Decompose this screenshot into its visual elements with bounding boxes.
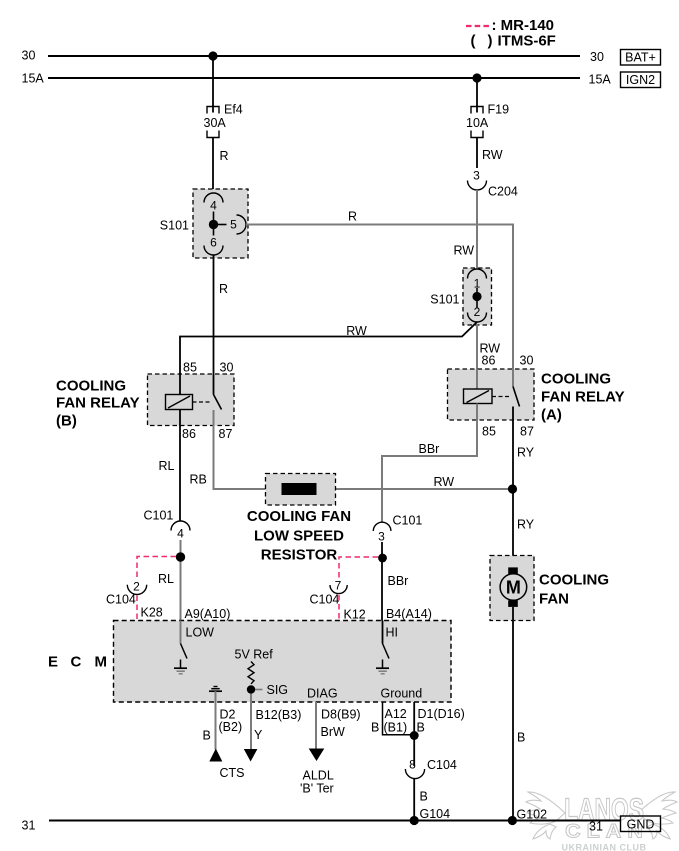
svg-text:HI: HI <box>386 626 399 640</box>
svg-text:K12: K12 <box>344 608 366 622</box>
svg-text:10A: 10A <box>466 116 489 130</box>
node K12 <box>344 608 366 622</box>
svg-text:M: M <box>506 578 521 598</box>
cooling fan motor M1 <box>500 567 527 606</box>
svg-text:C: C <box>71 654 82 671</box>
wire BBr C101 pin3 to ECM HI <box>382 542 408 621</box>
relay A pin 87 label <box>520 425 534 439</box>
svg-text:UKRAINIAN CLUB: UKRAINIAN CLUB <box>562 843 647 851</box>
connector C104 pin 8 <box>405 758 457 779</box>
svg-text:COOLING: COOLING <box>539 572 609 589</box>
relay B switch <box>214 374 222 410</box>
node label 30 left <box>22 49 36 63</box>
splice S101 (right block) <box>463 268 492 325</box>
S101 pin 4 <box>204 193 223 213</box>
svg-text:C104: C104 <box>427 758 457 772</box>
wire SIG to B12 pin <box>250 694 252 703</box>
ECM LOW driver switch <box>181 621 188 659</box>
svg-text:8: 8 <box>409 758 416 772</box>
svg-text:R: R <box>220 149 229 163</box>
svg-text:ALDL: ALDL <box>303 769 334 783</box>
relay B pin 30 label <box>220 361 234 375</box>
bus wire 15A <box>48 77 580 79</box>
svg-text:C101: C101 <box>144 509 174 523</box>
node label 30 right <box>590 50 604 64</box>
svg-text:6: 6 <box>210 236 217 250</box>
legend MR-140 dashed sample <box>466 25 489 27</box>
wire fuse F19 to connector C204, label RW <box>477 138 503 169</box>
wire RW S101 pin2 to relay A pin86 <box>477 324 500 369</box>
svg-text:15A: 15A <box>22 72 45 86</box>
motor: cooling fan box <box>490 556 534 621</box>
CTS arrow <box>209 749 244 781</box>
svg-text:ITMS-6F: ITMS-6F <box>498 33 556 50</box>
svg-text:GND: GND <box>627 818 655 832</box>
resistor name <box>247 508 351 564</box>
svg-text:RESISTOR: RESISTOR <box>261 547 338 564</box>
ground G104 <box>410 807 451 825</box>
svg-text:RL: RL <box>158 572 174 586</box>
svg-text:R: R <box>219 282 228 296</box>
ECM SIG node <box>247 683 288 697</box>
svg-text:30: 30 <box>22 49 36 63</box>
svg-text:(B1): (B1) <box>384 721 408 735</box>
node label 15A right <box>589 73 612 87</box>
svg-text:S101: S101 <box>160 219 189 233</box>
svg-text:85: 85 <box>482 425 496 439</box>
svg-text:RW: RW <box>346 324 367 338</box>
connector C104 pin 7 <box>310 579 348 607</box>
pin D2 (B2) wire to CTS <box>203 702 243 750</box>
ECM name <box>48 654 107 671</box>
wire C104 pin8 to G104, label B <box>414 779 428 821</box>
relay A name <box>541 371 625 424</box>
ground G102 <box>508 808 547 826</box>
svg-text:B4(A14): B4(A14) <box>386 607 432 621</box>
wire R from S101 pin6 to relay B pin30 <box>214 255 229 374</box>
label RW above S101 right <box>454 244 475 258</box>
ECM HI input label <box>386 626 399 640</box>
svg-text:2: 2 <box>474 305 481 319</box>
terminal BAT+ <box>621 50 661 66</box>
wire bus30 to fuse Ef4 <box>212 56 214 113</box>
pin D1(D16) wire, label B <box>414 702 465 736</box>
svg-text:RW: RW <box>482 148 503 162</box>
junction A12/D1 <box>410 731 419 740</box>
svg-text:S101: S101 <box>430 293 459 307</box>
connector C204 pin 3 <box>468 169 518 199</box>
svg-text:B: B <box>417 721 425 735</box>
svg-text:CTS: CTS <box>220 766 245 780</box>
svg-text:87: 87 <box>219 427 233 441</box>
terminal IGN2 <box>621 72 661 88</box>
ECM LOW ground <box>174 660 187 674</box>
connector C101 pin 4 <box>144 509 191 541</box>
relay: cooling fan relay (B) box <box>148 374 235 426</box>
S101 pin 5 <box>230 215 246 234</box>
wire junction to C104 pin8 <box>413 736 415 767</box>
svg-text:FAN RELAY: FAN RELAY <box>56 395 140 412</box>
svg-text:RL: RL <box>159 459 175 473</box>
svg-text:B12(B3): B12(B3) <box>256 708 302 722</box>
svg-text:(B): (B) <box>56 413 77 430</box>
relay A switch <box>513 369 520 407</box>
svg-text:: MR-140: : MR-140 <box>492 17 555 34</box>
wire B cooling fan to G102 <box>513 607 525 821</box>
label RW resistor to junction <box>434 475 455 489</box>
splice S101 (left block) <box>193 189 248 258</box>
svg-text:LOW: LOW <box>186 626 215 640</box>
svg-text:COOLING FAN: COOLING FAN <box>247 508 351 525</box>
junction on bus 15A <box>472 73 481 82</box>
svg-text:87: 87 <box>520 425 534 439</box>
svg-text:C104: C104 <box>106 593 136 607</box>
relay B coil <box>166 374 193 426</box>
wire bus15A to fuse F19 <box>476 78 478 113</box>
svg-text:30A: 30A <box>204 116 227 130</box>
svg-text:D8(B9): D8(B9) <box>321 708 361 722</box>
relay A coil-switch dashed link <box>492 396 511 398</box>
svg-text:B: B <box>203 729 211 743</box>
svg-text:31: 31 <box>589 820 603 834</box>
svg-text:BBr: BBr <box>388 574 409 588</box>
relay A coil <box>464 369 493 420</box>
ECM LOW input label <box>186 626 215 640</box>
svg-text:K28: K28 <box>141 606 163 620</box>
svg-text:D1(D16): D1(D16) <box>418 707 465 721</box>
S101 splice dot and stubs <box>209 212 227 236</box>
svg-text:Y: Y <box>254 728 263 742</box>
svg-text:B: B <box>371 721 379 735</box>
wire MR-140 option to C104 pin7 (magenta dashed) <box>339 557 378 621</box>
svg-text:B: B <box>517 731 525 745</box>
svg-text:A9(A10): A9(A10) <box>185 607 231 621</box>
S101 right pin 2 <box>468 305 487 322</box>
svg-text:COOLING: COOLING <box>56 378 126 395</box>
cooling fan name <box>539 572 609 608</box>
svg-text:4: 4 <box>210 199 217 213</box>
S101 right splice dot <box>472 288 481 308</box>
svg-text:'B' Ter: 'B' Ter <box>300 782 334 796</box>
wire RL relay B pin86 to C101 pin4 <box>159 426 181 522</box>
wire RW S101 pin2 to relay B pin85 <box>180 322 477 374</box>
svg-text:3: 3 <box>473 169 480 183</box>
svg-text:RY: RY <box>517 518 535 532</box>
node label 31 left <box>22 819 36 833</box>
ECM chassis ground for D2 <box>209 687 222 703</box>
ECM DIAG label <box>307 687 338 701</box>
ECM U1 box <box>114 621 452 703</box>
relay B pin 86 label <box>182 427 196 441</box>
wire RB relay B pin87 to resistor <box>190 410 513 489</box>
svg-text:RW: RW <box>434 475 455 489</box>
svg-text:BAT+: BAT+ <box>625 51 656 65</box>
watermark <box>526 791 677 851</box>
svg-text:): ) <box>488 33 493 50</box>
svg-text:Ef4: Ef4 <box>224 103 243 117</box>
svg-text:7: 7 <box>335 579 342 593</box>
svg-text:RB: RB <box>190 473 207 487</box>
ECM pull-up resistor <box>248 662 254 684</box>
svg-text:5: 5 <box>230 218 237 232</box>
svg-text:E: E <box>48 654 58 671</box>
svg-text:(: ( <box>471 33 476 50</box>
pin B12(B3) wire, label Y <box>244 702 302 762</box>
S101 label right <box>430 293 459 307</box>
wire BBr relay A pin85 to C101 pin3 <box>382 420 477 522</box>
svg-text:IGN2: IGN2 <box>626 73 655 87</box>
svg-text:86: 86 <box>182 427 196 441</box>
S101 right pin 1 <box>468 269 487 291</box>
relay B pin 85 label <box>183 361 197 375</box>
svg-text:BrW: BrW <box>321 725 346 739</box>
svg-text:A12: A12 <box>385 707 407 721</box>
svg-text:F19: F19 <box>488 103 510 117</box>
wire fuse Ef4 to S101 pin4, label R <box>213 138 229 194</box>
legend label MR-140 <box>492 17 555 34</box>
svg-text:2: 2 <box>133 580 140 594</box>
fuse F19 10A <box>466 103 509 138</box>
svg-text:R: R <box>348 210 357 224</box>
svg-text:Ground: Ground <box>381 687 423 701</box>
fuse Ef4 30A <box>204 103 243 138</box>
resistor: cooling fan low speed resistor <box>266 474 336 506</box>
svg-text:RW: RW <box>454 244 475 258</box>
bus wire 31 <box>49 820 621 822</box>
wire MR-140 option to C104 pin2 (magenta dashed) <box>137 557 176 621</box>
wire RL C101 pin4 to ECM LOW <box>158 540 181 621</box>
ECM 5V Ref label <box>235 648 274 662</box>
pin A12 (B1) wire <box>371 702 414 735</box>
node label 31 right <box>589 820 603 834</box>
svg-text:DIAG: DIAG <box>307 687 338 701</box>
svg-text:FAN: FAN <box>539 591 569 608</box>
S101 pin 6 <box>204 236 223 256</box>
junction BBr / MR-140 branch <box>378 554 387 563</box>
svg-text:(A): (A) <box>541 407 562 424</box>
svg-text:30: 30 <box>220 361 234 375</box>
junction RW/RY <box>508 484 517 493</box>
bus wire 30 <box>48 55 580 57</box>
wire RY relay A pin87 down to junction <box>513 407 535 490</box>
svg-text:COOLING: COOLING <box>541 371 611 388</box>
terminal GND <box>621 816 661 832</box>
node label 15A left <box>22 72 45 86</box>
svg-text:M: M <box>95 654 108 671</box>
svg-text:C204: C204 <box>488 185 518 199</box>
svg-text:FAN RELAY: FAN RELAY <box>541 389 625 406</box>
relay A pin 85 label <box>482 425 496 439</box>
svg-text:G104: G104 <box>420 807 451 821</box>
svg-text:30: 30 <box>590 50 604 64</box>
relay B pin 87 label <box>219 427 233 441</box>
node K28 <box>141 606 163 620</box>
svg-text:(B2): (B2) <box>219 720 243 734</box>
connector C101 pin 3 <box>373 514 422 544</box>
svg-text:30: 30 <box>520 354 534 368</box>
pin B4(A14) label <box>386 607 432 621</box>
wire R from S101 pin5 to relay A pin30 <box>246 210 513 370</box>
svg-text:B: B <box>420 790 428 804</box>
svg-text:4: 4 <box>177 527 184 541</box>
relay A pin 30 label <box>520 354 534 368</box>
relay A pin 86 label <box>482 354 496 368</box>
relay B coil-switch dashed link <box>193 401 211 403</box>
svg-text:BBr: BBr <box>419 442 440 456</box>
wire RY junction to cooling fan <box>513 489 535 568</box>
connector C104 pin 2 <box>106 580 147 607</box>
svg-text:86: 86 <box>482 354 496 368</box>
relay: cooling fan relay (A) box <box>448 369 535 420</box>
svg-text:SIG: SIG <box>267 683 289 697</box>
svg-text:C101: C101 <box>393 514 423 528</box>
pin D8(B9) wire to ALDL, label BrW <box>300 702 361 796</box>
svg-text:85: 85 <box>183 361 197 375</box>
junction on bus 30 <box>208 51 217 60</box>
svg-text:31: 31 <box>22 819 36 833</box>
ECM HI driver switch <box>383 621 390 659</box>
svg-text:5V Ref: 5V Ref <box>235 648 274 662</box>
svg-text:3: 3 <box>378 530 385 544</box>
ECM Ground label <box>381 687 423 701</box>
svg-text:C104: C104 <box>310 593 340 607</box>
S101 label left <box>160 219 189 233</box>
svg-text:15A: 15A <box>589 73 612 87</box>
svg-text:G102: G102 <box>517 808 548 822</box>
pin A9(A10) label <box>185 607 231 621</box>
svg-text:LOW SPEED: LOW SPEED <box>254 528 344 545</box>
svg-text:RY: RY <box>517 446 535 460</box>
junction RL / MR-140 branch <box>176 552 185 561</box>
ECM HI ground <box>376 660 389 674</box>
legend label ITMS-6F <box>471 33 556 50</box>
wire C204 to S101 pin1 <box>476 190 478 269</box>
relay B name <box>56 378 140 430</box>
